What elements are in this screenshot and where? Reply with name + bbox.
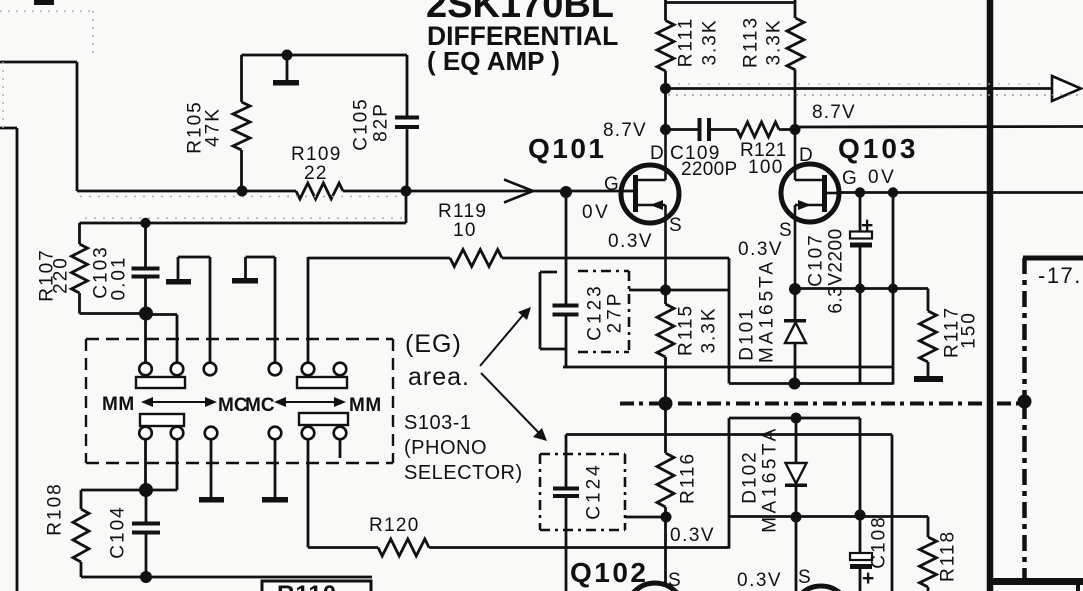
svg-text:C104: C104 <box>108 505 129 558</box>
svg-text:0.3V: 0.3V <box>738 239 783 260</box>
svg-text:220: 220 <box>51 256 72 294</box>
svg-text:MM: MM <box>349 395 382 416</box>
svg-text:D: D <box>799 145 813 166</box>
svg-text:MA165TA: MA165TA <box>757 259 778 363</box>
svg-text:2200P: 2200P <box>681 159 737 180</box>
svg-text:-17.: -17. <box>1038 263 1082 288</box>
svg-text:R113: R113 <box>741 16 762 68</box>
svg-text:(PHONO: (PHONO <box>404 437 487 459</box>
svg-text:R118: R118 <box>938 530 959 582</box>
svg-text:SELECTOR): SELECTOR) <box>404 462 523 484</box>
svg-text:0.01: 0.01 <box>109 256 130 301</box>
svg-text:C105: C105 <box>351 97 372 150</box>
svg-text:R108: R108 <box>45 482 66 535</box>
svg-text:Q101: Q101 <box>528 133 607 164</box>
svg-text:D101: D101 <box>737 307 758 360</box>
svg-text:( EQ AMP ): ( EQ AMP ) <box>427 46 560 76</box>
svg-text:G: G <box>842 168 857 189</box>
svg-text:0.3V: 0.3V <box>608 231 653 252</box>
svg-text:3.3K: 3.3K <box>700 18 721 65</box>
svg-text:100: 100 <box>748 157 784 178</box>
svg-text:22: 22 <box>304 163 328 184</box>
svg-text:G: G <box>604 174 619 195</box>
svg-text:27P: 27P <box>605 291 626 334</box>
svg-text:+: + <box>862 567 874 590</box>
svg-text:Q102: Q102 <box>570 557 649 588</box>
svg-text:R120: R120 <box>369 515 420 536</box>
svg-text:0V: 0V <box>868 167 896 188</box>
svg-text:MC: MC <box>245 395 275 416</box>
svg-text:R109: R109 <box>291 144 342 165</box>
svg-text:area.: area. <box>408 363 470 391</box>
svg-text:10: 10 <box>453 220 477 241</box>
svg-text:47K: 47K <box>203 107 224 147</box>
svg-text:8.7V: 8.7V <box>603 120 647 141</box>
svg-text:+: + <box>861 214 873 237</box>
svg-text:R115: R115 <box>676 304 697 356</box>
svg-text:C107: C107 <box>806 233 827 286</box>
svg-text:0.3V: 0.3V <box>670 525 715 546</box>
svg-text:8.7V: 8.7V <box>812 102 856 123</box>
svg-text:MA165TA: MA165TA <box>760 425 781 533</box>
svg-text:R119: R119 <box>438 201 487 222</box>
svg-text:D: D <box>650 143 664 164</box>
svg-text:C124: C124 <box>584 462 605 519</box>
svg-text:S103-1: S103-1 <box>404 412 472 434</box>
svg-text:(EG): (EG) <box>405 330 462 358</box>
svg-text:MM: MM <box>102 394 135 415</box>
svg-text:S: S <box>669 215 682 236</box>
svg-text:0V: 0V <box>582 202 610 223</box>
svg-text:MC: MC <box>218 395 248 416</box>
svg-text:S: S <box>779 220 792 241</box>
svg-text:C108: C108 <box>869 515 890 568</box>
svg-text:R116: R116 <box>678 452 699 504</box>
svg-text:6.3V2200: 6.3V2200 <box>826 228 847 313</box>
svg-text:82P: 82P <box>371 102 392 142</box>
svg-text:3.3K: 3.3K <box>764 18 785 65</box>
svg-text:S: S <box>798 567 811 588</box>
svg-text:150: 150 <box>959 311 980 349</box>
svg-text:S: S <box>668 570 681 591</box>
svg-text:0.3V: 0.3V <box>737 570 782 591</box>
svg-text:C123: C123 <box>585 283 606 340</box>
svg-text:3.3K: 3.3K <box>699 306 720 353</box>
svg-text:Q103: Q103 <box>838 133 919 164</box>
svg-text:R111: R111 <box>676 17 697 68</box>
svg-text:R110: R110 <box>277 581 337 591</box>
svg-text:D102: D102 <box>740 450 761 503</box>
